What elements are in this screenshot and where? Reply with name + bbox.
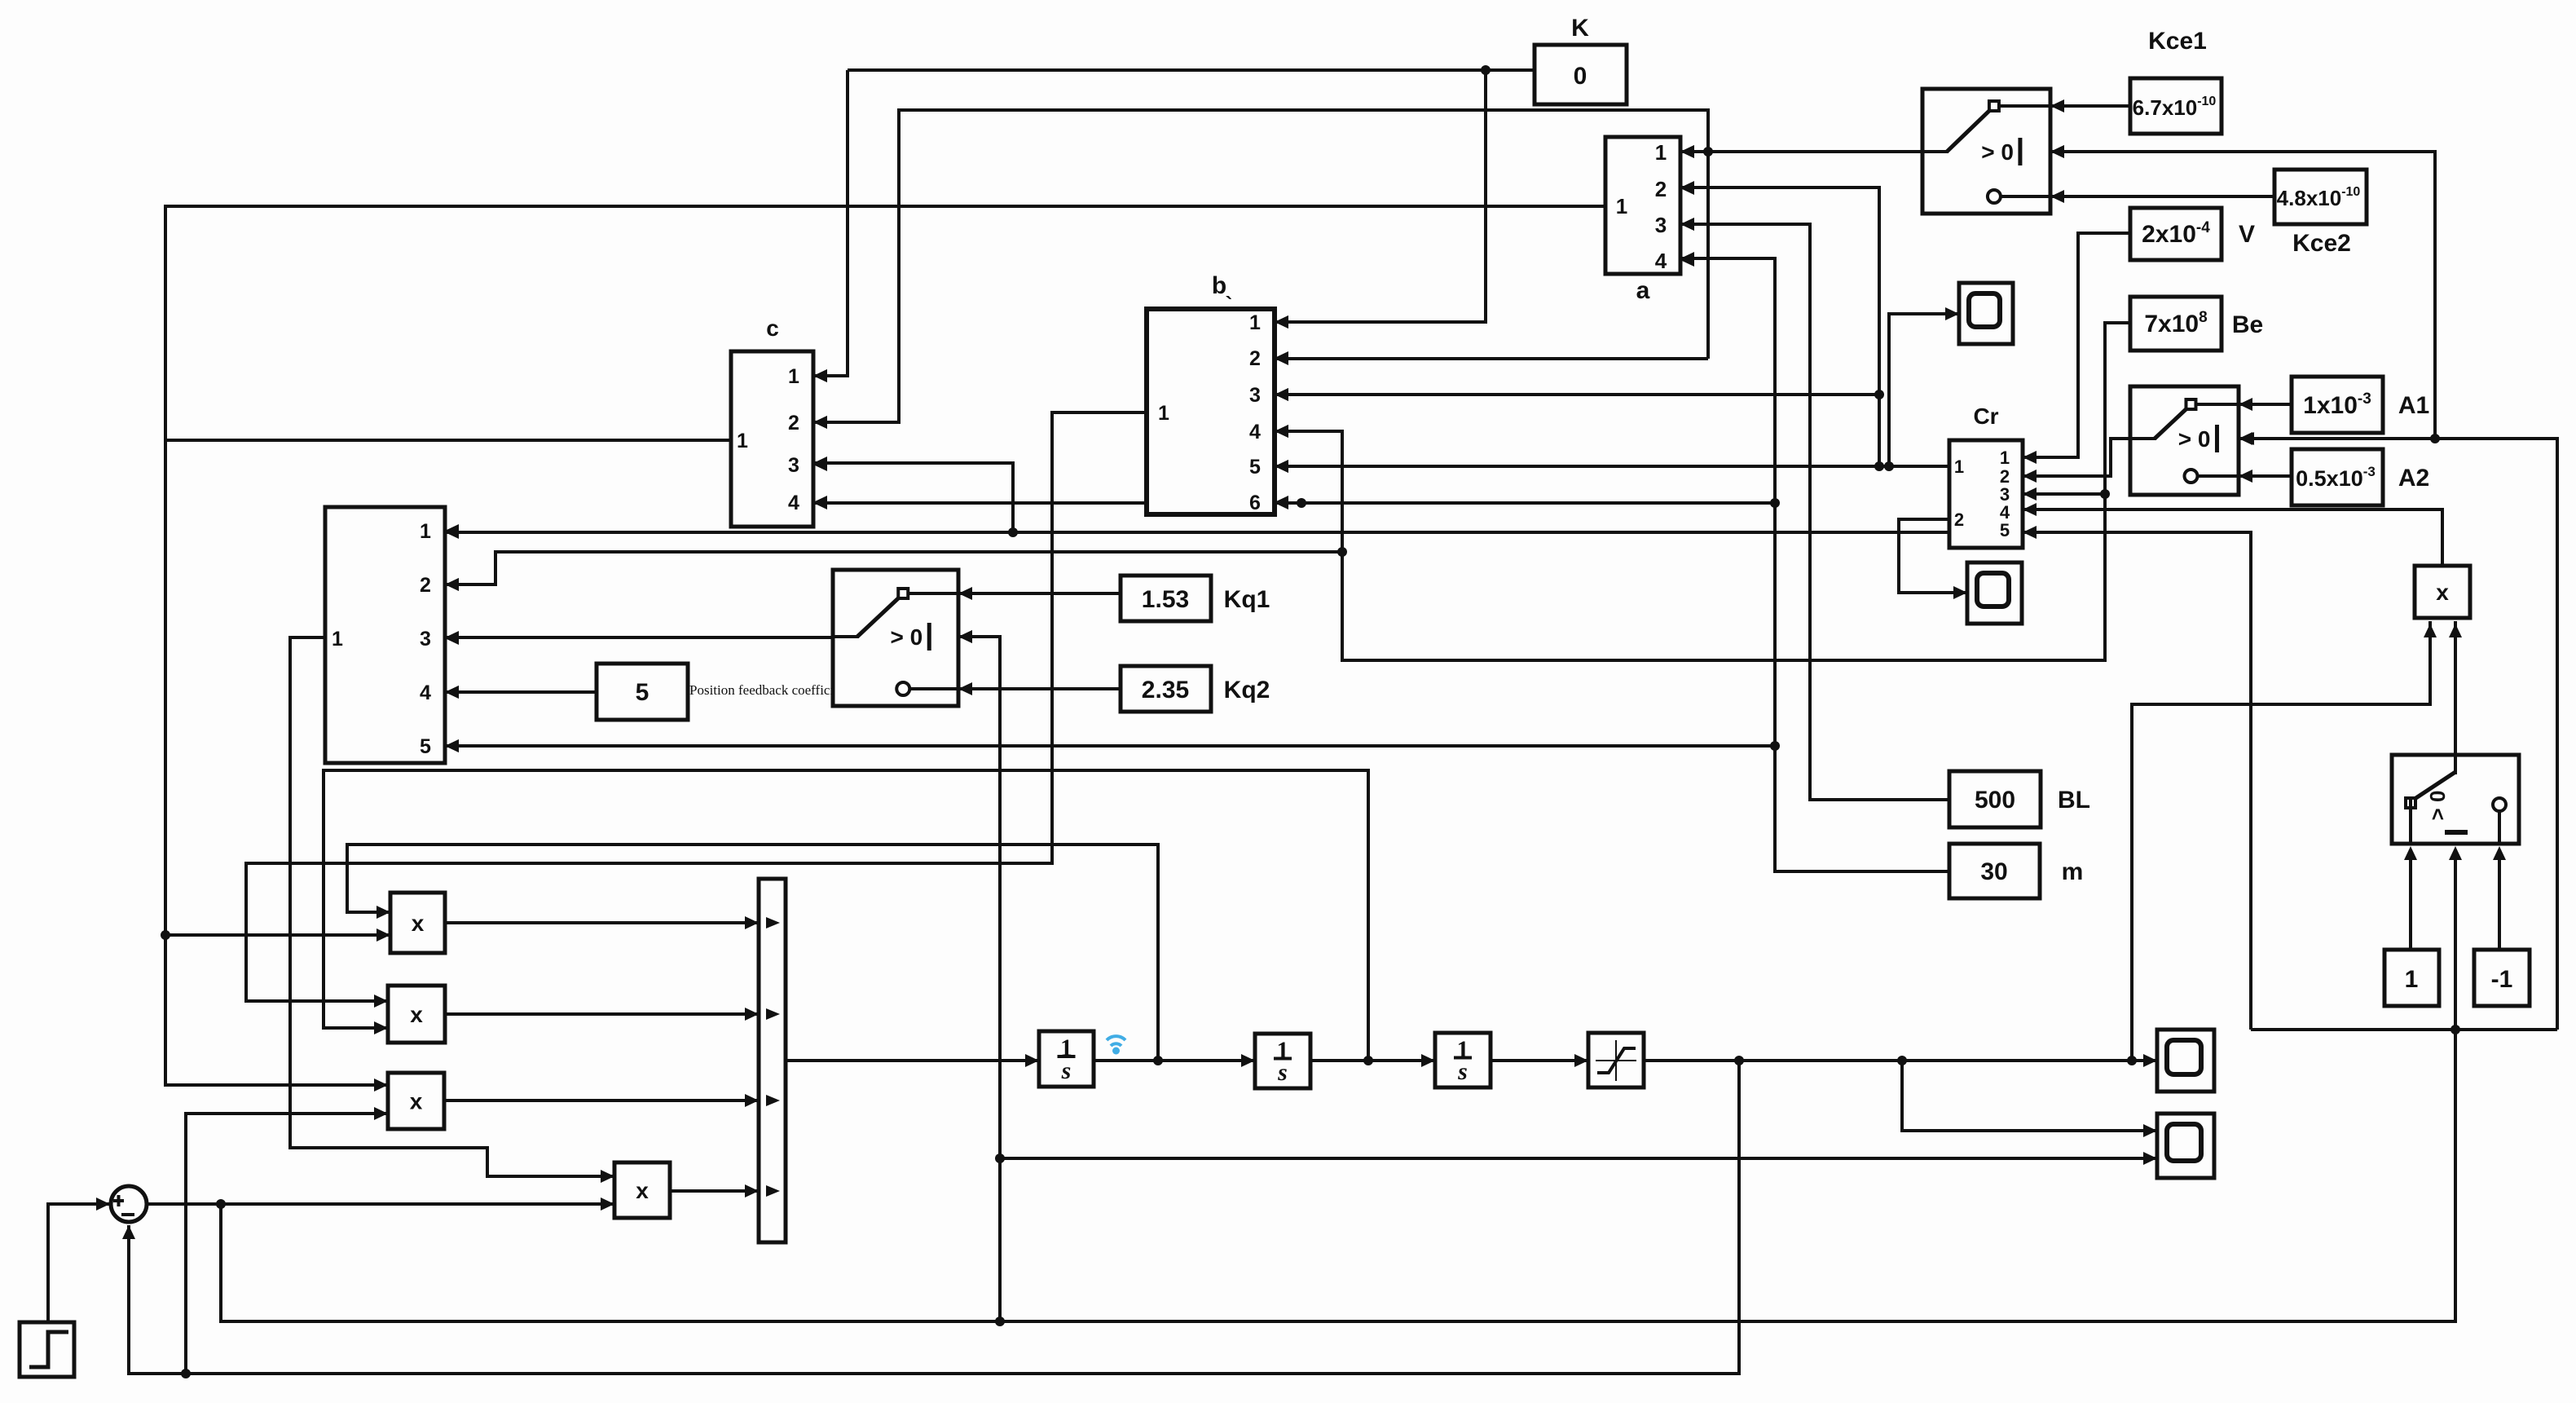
svg-text:6: 6 — [1249, 492, 1261, 514]
svg-text:x: x — [2436, 580, 2449, 605]
svg-text:1: 1 — [2000, 448, 2010, 468]
svg-text:Kq2: Kq2 — [1224, 677, 1270, 703]
svg-text:3: 3 — [420, 628, 431, 651]
svg-text:2: 2 — [1655, 177, 1667, 201]
svg-text:2: 2 — [1954, 509, 1964, 530]
svg-text:4: 4 — [788, 492, 799, 514]
svg-text:s: s — [1457, 1058, 1468, 1085]
svg-text:1: 1 — [1158, 402, 1169, 425]
svg-text:2.35: 2.35 — [1142, 677, 1189, 703]
svg-text:m: m — [2062, 858, 2084, 885]
svg-text:1: 1 — [1249, 311, 1261, 334]
svg-text:s: s — [1277, 1059, 1288, 1086]
svg-text:1: 1 — [332, 628, 343, 651]
svg-text:4: 4 — [1655, 249, 1667, 273]
svg-text:30: 30 — [1980, 858, 2007, 885]
svg-text:3: 3 — [1655, 213, 1667, 237]
svg-text:1: 1 — [2405, 966, 2419, 993]
svg-text:`: ` — [1226, 292, 1233, 316]
svg-text:> 0: > 0 — [2178, 426, 2211, 452]
svg-text:c: c — [766, 315, 779, 341]
svg-text:1: 1 — [1655, 140, 1667, 165]
svg-text:> 0: > 0 — [2425, 791, 2450, 821]
svg-text:0: 0 — [1574, 63, 1587, 90]
svg-text:a: a — [1636, 277, 1650, 304]
svg-text:Be: Be — [2232, 311, 2263, 338]
svg-text:x: x — [410, 1089, 423, 1114]
svg-text:Position feedback coefficient: Position feedback coefficient — [689, 682, 851, 698]
svg-text:2: 2 — [1249, 347, 1261, 370]
svg-text:x: x — [636, 1178, 649, 1203]
svg-text:1: 1 — [1954, 457, 1964, 477]
svg-text:5: 5 — [2000, 520, 2010, 540]
svg-text:1: 1 — [1616, 194, 1627, 218]
svg-text:4: 4 — [420, 681, 431, 704]
svg-text:3: 3 — [1249, 384, 1261, 407]
svg-text:BL: BL — [2058, 787, 2090, 814]
svg-text:4: 4 — [1249, 421, 1261, 443]
svg-text:x: x — [410, 1002, 423, 1027]
svg-text:7x108: 7x108 — [2144, 309, 2207, 337]
svg-text:> 0: > 0 — [1981, 139, 2014, 165]
svg-text:A1: A1 — [2398, 392, 2429, 419]
svg-text:5: 5 — [636, 679, 650, 706]
svg-text:x: x — [412, 911, 425, 936]
svg-text:A2: A2 — [2398, 465, 2429, 492]
svg-text:Kce1: Kce1 — [2148, 28, 2207, 55]
svg-text:b: b — [1212, 272, 1226, 299]
svg-text:V: V — [2239, 221, 2255, 248]
svg-text:s: s — [1061, 1057, 1072, 1084]
svg-text:K: K — [1571, 15, 1589, 42]
svg-text:5: 5 — [420, 735, 431, 758]
svg-text:2: 2 — [788, 412, 799, 434]
svg-text:500: 500 — [1975, 787, 2015, 814]
svg-text:1.53: 1.53 — [1142, 586, 1189, 613]
svg-text:1: 1 — [788, 365, 799, 388]
svg-text:3: 3 — [788, 454, 799, 477]
svg-text:5: 5 — [1249, 456, 1261, 479]
svg-text:Kq1: Kq1 — [1224, 586, 1270, 613]
svg-text:2: 2 — [420, 574, 431, 597]
svg-text:Kce2: Kce2 — [2292, 230, 2351, 257]
svg-text:Cr: Cr — [1973, 404, 1998, 429]
svg-text:1: 1 — [420, 520, 431, 543]
svg-text:1: 1 — [737, 430, 748, 452]
svg-text:> 0: > 0 — [891, 624, 923, 650]
svg-text:-1: -1 — [2491, 966, 2513, 993]
